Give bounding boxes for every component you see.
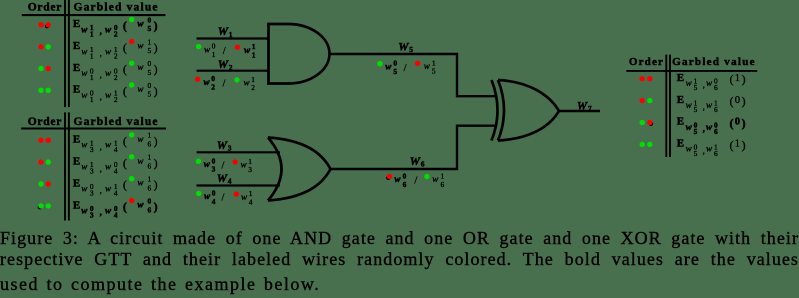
svg-text:E: E xyxy=(73,156,80,168)
svg-text:w: w xyxy=(204,77,211,87)
svg-text:Garbled value: Garbled value xyxy=(672,56,755,68)
svg-text:w: w xyxy=(105,162,112,172)
XOR gate U3 xyxy=(492,80,560,141)
svg-text:W: W xyxy=(410,156,421,168)
svg-text:w: w xyxy=(81,24,88,34)
table T3 (XOR gate GTT) header rule xyxy=(626,70,757,72)
svg-text:w: w xyxy=(105,184,112,194)
svg-text:5: 5 xyxy=(432,67,436,76)
svg-text:E: E xyxy=(73,177,80,189)
svg-text:w: w xyxy=(204,159,211,169)
svg-text:): ) xyxy=(154,62,158,76)
svg-text:,: , xyxy=(100,70,102,80)
svg-text:E: E xyxy=(677,94,684,106)
svg-text:,: , xyxy=(703,145,705,155)
table T2 double vertical rule xyxy=(64,112,66,220)
svg-text:5: 5 xyxy=(694,149,698,158)
svg-text:(: ( xyxy=(123,134,127,148)
svg-text:W: W xyxy=(577,100,588,112)
svg-text:6: 6 xyxy=(714,127,718,136)
svg-text:w: w xyxy=(706,78,713,88)
svg-text:w: w xyxy=(432,174,439,184)
circuit figure xyxy=(0,0,799,230)
T1 row 1 (used: E_w1^1,w2^0 -> w5^0): garbled value E-expression xyxy=(73,15,158,38)
svg-text:W: W xyxy=(218,26,229,38)
svg-text:6: 6 xyxy=(714,149,718,158)
svg-text:1: 1 xyxy=(90,73,94,82)
svg-text:/: / xyxy=(222,193,225,204)
svg-text:3: 3 xyxy=(90,145,94,154)
svg-text:4: 4 xyxy=(212,197,216,206)
label W3 xyxy=(217,140,232,153)
svg-text:/: / xyxy=(223,78,226,89)
svg-text:,: , xyxy=(703,124,705,134)
svg-text:w: w xyxy=(424,61,431,71)
svg-text:4: 4 xyxy=(114,145,118,154)
svg-text:(: ( xyxy=(730,72,734,86)
svg-text:): ) xyxy=(154,84,158,98)
T3 row 4: garbled value E-expression xyxy=(677,138,746,158)
svg-text:E: E xyxy=(73,199,80,211)
svg-text:6: 6 xyxy=(148,140,152,149)
wire W1 (input to AND) xyxy=(197,37,269,39)
T3 row 2: garbled value E-expression xyxy=(677,94,746,114)
svg-text:6: 6 xyxy=(714,83,718,92)
svg-text:2: 2 xyxy=(251,83,255,92)
svg-text:/: / xyxy=(414,176,417,187)
svg-text:w: w xyxy=(81,140,88,150)
label W7 xyxy=(577,100,592,113)
T1 row 3: order dots xyxy=(38,66,43,71)
svg-text:): ) xyxy=(154,156,158,170)
svg-text:w: w xyxy=(81,68,88,78)
svg-text:w: w xyxy=(81,184,88,194)
svg-text:): ) xyxy=(742,116,746,130)
T2 row 4 (used: E_w3^0,w4^0 -> w6^0): garbled value E-expression xyxy=(73,196,158,219)
svg-text:w: w xyxy=(137,200,144,210)
svg-text:(: ( xyxy=(123,178,127,192)
svg-text:/: / xyxy=(222,161,225,172)
svg-text:w: w xyxy=(204,191,211,201)
svg-text:1: 1 xyxy=(252,51,256,60)
svg-text:0: 0 xyxy=(148,196,152,205)
svg-text:): ) xyxy=(154,178,158,192)
table T1 double vertical rule xyxy=(64,0,66,107)
svg-text:4: 4 xyxy=(114,189,118,198)
svg-text:w: w xyxy=(81,162,88,172)
svg-text:E: E xyxy=(677,116,684,128)
svg-text:5: 5 xyxy=(148,90,152,99)
svg-text:2: 2 xyxy=(114,29,118,38)
svg-text:w: w xyxy=(105,205,112,215)
svg-text:W: W xyxy=(218,59,229,71)
svg-text:w: w xyxy=(105,24,112,34)
svg-text:E: E xyxy=(73,18,80,30)
T1 row 3: garbled value E-expression xyxy=(73,59,158,82)
svg-text:w: w xyxy=(241,160,248,170)
svg-text:w: w xyxy=(137,41,144,51)
svg-text:6: 6 xyxy=(421,160,425,169)
svg-text:6: 6 xyxy=(441,180,445,189)
svg-text:0: 0 xyxy=(735,95,740,106)
svg-text:Garbled value: Garbled value xyxy=(74,2,158,14)
svg-text:,: , xyxy=(100,141,102,151)
svg-text:/: / xyxy=(223,46,226,57)
svg-text:1: 1 xyxy=(229,30,233,39)
svg-text:Order: Order xyxy=(629,56,663,68)
svg-text:3: 3 xyxy=(90,189,94,198)
svg-text:1: 1 xyxy=(148,37,152,46)
T1 row 4: garbled value E-expression xyxy=(73,81,158,104)
svg-text:w: w xyxy=(706,144,713,154)
svg-text:w: w xyxy=(81,90,88,100)
svg-text:5: 5 xyxy=(694,83,698,92)
svg-text:Order: Order xyxy=(28,116,62,128)
T1 row 2: garbled value E-expression xyxy=(73,37,158,60)
T2 row 4 (used: E_w3^0,w4^0 -> w6^0): order dots xyxy=(38,205,43,210)
svg-text:5: 5 xyxy=(694,105,698,114)
value labels on wire W5: w5^0 / w5^1 xyxy=(377,58,436,76)
svg-text:(: ( xyxy=(730,116,734,130)
svg-text:0: 0 xyxy=(148,81,152,90)
svg-text:w: w xyxy=(204,44,211,54)
svg-text:w: w xyxy=(686,122,693,132)
svg-text:3: 3 xyxy=(248,165,252,174)
svg-text:W: W xyxy=(217,173,228,185)
svg-text:4: 4 xyxy=(114,167,118,176)
svg-text:6: 6 xyxy=(714,105,718,114)
value labels on wire W2: w2^0 / w2^1 xyxy=(195,74,255,92)
svg-text:): ) xyxy=(154,19,158,33)
svg-text:E: E xyxy=(73,40,80,52)
svg-text:3: 3 xyxy=(212,165,216,174)
svg-text:6: 6 xyxy=(403,180,407,189)
svg-text:1: 1 xyxy=(90,51,94,60)
svg-text:w: w xyxy=(244,45,251,55)
T3 row 1: garbled value E-expression xyxy=(677,72,746,92)
svg-text:5: 5 xyxy=(148,68,152,77)
svg-text:5: 5 xyxy=(694,127,698,136)
label W5 xyxy=(398,41,413,54)
svg-text:w: w xyxy=(105,90,112,100)
svg-text:w: w xyxy=(706,100,713,110)
wire W4 (input to OR) xyxy=(197,184,281,186)
T3 row 1: order dots xyxy=(640,76,645,81)
value labels on wire W1: w1^0 / w1^1 xyxy=(196,42,256,60)
svg-text:4: 4 xyxy=(249,197,253,206)
T3 row 4: order dots xyxy=(640,142,645,147)
wire W6 (OR output), runs right then up into XOR bottom input xyxy=(331,126,496,169)
svg-text:E: E xyxy=(73,62,80,74)
svg-text:w: w xyxy=(137,178,144,188)
svg-text:w: w xyxy=(137,156,144,166)
svg-text:(: ( xyxy=(730,94,734,108)
value labels on wire W3: w3^0 / w3^1 xyxy=(196,156,253,174)
T2 row 1: order dots xyxy=(38,138,43,143)
label W1 xyxy=(218,26,233,39)
svg-text:1: 1 xyxy=(735,73,740,84)
svg-text:2: 2 xyxy=(229,63,233,72)
svg-text:): ) xyxy=(154,134,158,148)
svg-text:E: E xyxy=(677,72,684,84)
svg-text:w: w xyxy=(385,61,392,71)
T1 row 4: order dots xyxy=(38,88,43,93)
svg-text:(: ( xyxy=(123,156,127,170)
svg-text:): ) xyxy=(154,41,158,55)
svg-text:5: 5 xyxy=(409,45,413,54)
wire W7 (XOR output) xyxy=(559,110,600,112)
label W2 xyxy=(218,59,233,72)
svg-text:2: 2 xyxy=(114,95,118,104)
svg-text:w: w xyxy=(81,46,88,56)
svg-text:Garbled value: Garbled value xyxy=(74,116,158,128)
svg-text:2: 2 xyxy=(114,51,118,60)
svg-text:(: ( xyxy=(123,62,127,76)
svg-text:w: w xyxy=(137,19,144,29)
svg-text:): ) xyxy=(742,72,746,86)
wire W2 (input to AND) xyxy=(197,70,269,72)
svg-text:1: 1 xyxy=(148,175,152,184)
svg-text:): ) xyxy=(742,94,746,108)
svg-text:1: 1 xyxy=(212,50,216,59)
svg-text:2: 2 xyxy=(211,83,215,92)
svg-text:0: 0 xyxy=(735,117,740,128)
svg-text:w: w xyxy=(686,100,693,110)
T2 row 2: order dots xyxy=(38,159,43,164)
svg-text:0: 0 xyxy=(148,15,152,24)
svg-text:w: w xyxy=(241,192,248,202)
svg-text:Order: Order xyxy=(28,2,62,14)
svg-text:6: 6 xyxy=(148,205,152,214)
svg-text:1: 1 xyxy=(148,131,152,140)
svg-text:4: 4 xyxy=(114,211,118,220)
svg-text:w: w xyxy=(105,140,112,150)
svg-text:E: E xyxy=(73,134,80,146)
OR gate U2 xyxy=(268,138,331,201)
svg-text:7: 7 xyxy=(588,104,592,113)
svg-text:,: , xyxy=(703,80,705,90)
value labels on wire W4: w4^0 / w4^1 xyxy=(196,189,253,207)
svg-text:1: 1 xyxy=(735,139,740,150)
svg-text:5: 5 xyxy=(393,67,397,76)
svg-text:1: 1 xyxy=(90,29,94,38)
T2 row 3: order dots xyxy=(38,181,43,186)
svg-text:,: , xyxy=(703,102,705,112)
svg-text:w: w xyxy=(137,84,144,94)
T2 row 1: garbled value E-expression xyxy=(73,131,158,154)
svg-text:,: , xyxy=(100,163,102,173)
svg-text:W: W xyxy=(398,41,409,53)
svg-text:(: ( xyxy=(123,200,127,214)
svg-text:E: E xyxy=(73,84,80,96)
table T1 (AND gate GTT) header rule xyxy=(22,14,166,16)
svg-text:3: 3 xyxy=(90,167,94,176)
svg-text:w: w xyxy=(394,174,401,184)
T2 row 3: garbled value E-expression xyxy=(73,175,158,198)
AND gate U1 xyxy=(269,24,330,84)
svg-text:w: w xyxy=(686,78,693,88)
svg-text:1: 1 xyxy=(148,153,152,162)
svg-text:w: w xyxy=(244,78,251,88)
svg-text:w: w xyxy=(105,68,112,78)
svg-text:2: 2 xyxy=(114,73,118,82)
svg-text:w: w xyxy=(81,205,88,215)
svg-text:5: 5 xyxy=(148,24,152,33)
svg-text:): ) xyxy=(742,138,746,152)
T2 row 2: garbled value E-expression xyxy=(73,153,158,176)
svg-text:w: w xyxy=(686,144,693,154)
caption xyxy=(0,228,799,294)
wire W5 (AND output), runs right then down into XOR top input xyxy=(330,54,496,96)
svg-text:W: W xyxy=(217,140,228,152)
svg-text:4: 4 xyxy=(228,177,232,186)
value labels on wire W6: w6^0 / w6^1 xyxy=(386,172,444,189)
svg-text:w: w xyxy=(137,134,144,144)
svg-text:,: , xyxy=(100,207,102,217)
svg-text:,: , xyxy=(100,92,102,102)
svg-text:): ) xyxy=(154,200,158,214)
svg-text:/: / xyxy=(404,63,407,74)
svg-text:E: E xyxy=(677,138,684,150)
svg-text:3: 3 xyxy=(90,211,94,220)
T3 row 3 (used: E_w5^0,w6^0 -> 0): order dots xyxy=(640,120,645,125)
svg-text:(: ( xyxy=(123,84,127,98)
svg-text:6: 6 xyxy=(148,183,152,192)
svg-text:,: , xyxy=(100,26,102,36)
svg-text:(: ( xyxy=(123,19,127,33)
T1 row 2: order dots xyxy=(38,44,43,49)
svg-text:w: w xyxy=(137,62,144,72)
svg-text:w: w xyxy=(105,46,112,56)
table T3 double vertical rule xyxy=(665,55,667,157)
svg-text:5: 5 xyxy=(148,46,152,55)
svg-text:,: , xyxy=(100,185,102,195)
svg-text:3: 3 xyxy=(228,144,232,153)
svg-text:6: 6 xyxy=(148,162,152,171)
svg-text:1: 1 xyxy=(90,95,94,104)
svg-text:(: ( xyxy=(123,41,127,55)
wire W3 (input to OR) xyxy=(197,151,281,153)
svg-text:0: 0 xyxy=(148,59,152,68)
T3 row 3 (used: E_w5^0,w6^0 -> 0): garbled value E-expression xyxy=(677,116,746,136)
svg-text:,: , xyxy=(100,48,102,58)
svg-text:(: ( xyxy=(730,138,734,152)
label W6 xyxy=(410,156,425,169)
T3 row 2: order dots xyxy=(640,98,645,103)
table T2 (OR gate GTT) header rule xyxy=(21,127,166,129)
T1 row 1 (used: E_w1^1,w2^0 -> w5^0): order dots xyxy=(38,22,43,27)
label W4 xyxy=(217,173,232,186)
svg-text:w: w xyxy=(706,122,713,132)
